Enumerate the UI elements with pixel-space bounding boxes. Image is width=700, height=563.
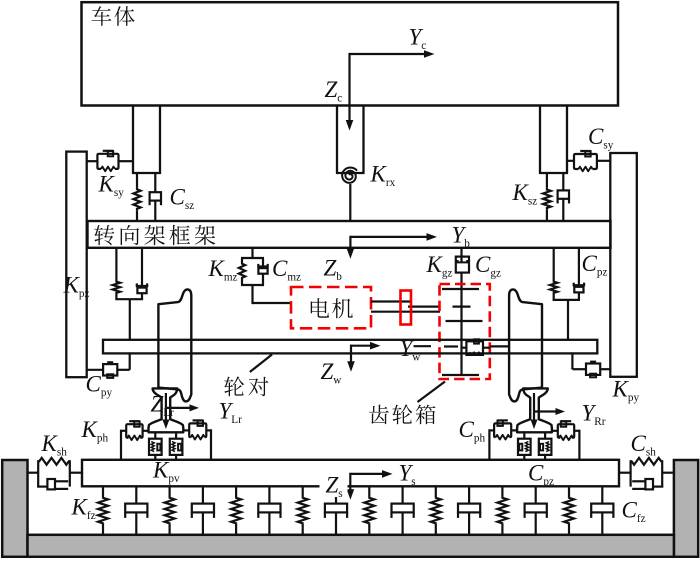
damper Cmz <box>262 258 264 267</box>
gear wheel top line <box>442 288 479 290</box>
spring Kmz <box>251 248 253 258</box>
damper Csy (horizontal combo) <box>567 160 574 162</box>
lateral stiffness member Kpy (tall bar right) <box>610 153 637 377</box>
damper Csz <box>154 173 156 192</box>
coordinate axis Ys arrow <box>350 473 383 475</box>
wire primary join to axle left <box>115 298 143 300</box>
spring Ksz <box>546 173 548 188</box>
bogie frame mass 转向架框架 <box>88 221 611 248</box>
torsional spring Krx (spiral) <box>342 168 357 183</box>
coordinate axis Yb arrow <box>350 236 427 238</box>
car body mass 车体 <box>82 2 619 105</box>
gear shaft vertical <box>460 289 462 375</box>
coordinate axis Zw arrow <box>350 345 352 362</box>
axle center dash segment 2 <box>444 345 458 347</box>
coupling (red box) <box>401 291 412 325</box>
rail pads Kph (left rail fastening) <box>121 430 126 432</box>
damper (right secondary vertical) <box>562 173 564 190</box>
wire gearbox to right wheel <box>490 345 510 347</box>
primary spring right <box>553 248 555 281</box>
center strut to Krx <box>336 106 365 174</box>
damper Cpy (left horizontal) <box>129 352 131 369</box>
contact coordinate YRr arrows <box>534 410 556 412</box>
pinion line 1 <box>453 306 471 308</box>
gear wheel bottom line <box>442 374 479 376</box>
wire Krx to bogie frame <box>349 184 351 222</box>
ground wall left <box>2 460 27 557</box>
left secondary strut <box>132 106 161 174</box>
label 轮对 with pointer <box>250 355 272 373</box>
coordinate axis Yc arrow <box>350 53 426 55</box>
spring-damper Kgz/Cgz unit <box>460 248 462 258</box>
right wheel profile <box>509 289 542 401</box>
spring-damper Ksy (horizontal combo) <box>87 160 98 162</box>
ground wall right <box>674 460 698 557</box>
wheelset axle <box>103 340 597 354</box>
ground foundation slab <box>28 535 674 557</box>
spring-damper Ksh (left lateral) <box>28 472 39 474</box>
lateral stiffness member Kpz (tall bar left) <box>66 152 86 378</box>
right secondary strut <box>539 106 568 174</box>
primary damper left <box>141 248 143 286</box>
wire primary join to axle right <box>553 299 580 301</box>
coordinate axis Yw arrow <box>351 345 371 347</box>
primary damper Cpz-right <box>578 248 580 285</box>
label 齿轮箱 with pointer <box>418 382 446 403</box>
slab support springs Kfz row <box>102 486 104 497</box>
motor shaft <box>371 300 411 302</box>
motor 电机 (red dashed box) <box>291 287 371 328</box>
spring Ksz-left / secondary vertical spring <box>136 173 138 187</box>
spring-damper Csh (right lateral) <box>618 458 673 490</box>
wire Kmz to motor <box>251 285 253 304</box>
right rail profile <box>517 388 552 432</box>
gearbox bearing damper on axle <box>461 347 467 349</box>
damper right lower horizontal <box>571 352 573 369</box>
left rail profile <box>149 388 184 432</box>
primary spring Kpz-left <box>115 248 117 281</box>
contact coordinate YLr arrows <box>166 407 190 409</box>
coordinate axis Zs arrow <box>349 473 351 490</box>
coordinate axis Zc arrow <box>348 53 350 121</box>
coordinate axis Zb arrow <box>349 236 351 249</box>
pinion line 2 <box>446 320 483 322</box>
track slab mass <box>82 460 619 487</box>
slab support dampers Cfz row <box>135 486 137 503</box>
rail pads Cph (right rail fastening) <box>489 420 579 460</box>
left wheel profile <box>158 289 191 401</box>
gearbox 齿轮箱 (red dashed box) <box>440 284 490 379</box>
